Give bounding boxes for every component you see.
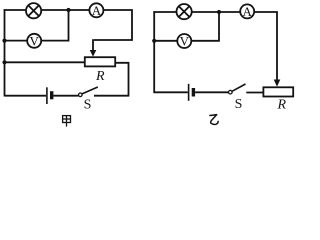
wire 甲 rheostat right lead down to bottom bbox=[115, 63, 128, 96]
switch S 甲 bbox=[79, 87, 98, 97]
svg-text:V: V bbox=[30, 33, 40, 48]
node 乙 voltmeter-left junction bbox=[152, 39, 156, 43]
wire 乙 ammeter to top-right corner, down, wiper arrow bbox=[255, 12, 281, 87]
svg-text:S: S bbox=[84, 97, 92, 112]
resistor R rheostat 甲 bbox=[85, 57, 115, 66]
voltmeter V2 乙 bbox=[177, 34, 191, 49]
svg-text:A: A bbox=[92, 3, 102, 18]
lamp L2 乙 bbox=[177, 4, 192, 19]
label 甲 bbox=[63, 116, 71, 127]
node 甲 top junction (voltmeter tap) bbox=[66, 8, 70, 12]
wire 乙 switch to rheostat left lead bbox=[246, 92, 263, 94]
wire 甲 wiper arrow bbox=[90, 39, 97, 56]
svg-text:S: S bbox=[235, 97, 243, 112]
resistor R rheostat 乙 bbox=[263, 87, 293, 96]
wire 甲 switch to bottom-right corner bbox=[94, 95, 129, 97]
wire 甲 bottom-left to battery bbox=[5, 95, 47, 97]
label S 甲 bbox=[84, 97, 92, 112]
node 甲 rheostat-left junction bbox=[2, 60, 6, 64]
voltmeter V1 甲 bbox=[27, 33, 41, 48]
wire 乙 lamp to ammeter bbox=[192, 11, 240, 13]
battery B1 甲 bbox=[47, 87, 52, 104]
svg-text:R: R bbox=[95, 69, 105, 84]
node 乙 top junction (voltmeter tap) bbox=[217, 10, 221, 14]
wire 甲 top-left segment bbox=[4, 9, 26, 11]
wire 甲 ammeter to top-right corner and down to wiper bbox=[94, 10, 132, 40]
switch S 乙 bbox=[229, 84, 246, 94]
wire 乙 voltmeter left lead bbox=[154, 40, 177, 42]
ammeter A2 乙 bbox=[240, 4, 254, 19]
node 甲 voltmeter-left junction bbox=[2, 39, 6, 43]
wire 甲 left vertical bbox=[4, 9, 6, 96]
lamp L1 甲 bbox=[26, 3, 41, 18]
svg-text:R: R bbox=[277, 98, 287, 113]
svg-text:V: V bbox=[180, 34, 190, 49]
label S 乙 bbox=[235, 97, 243, 112]
wire 乙 bottom-left to battery bbox=[154, 91, 188, 93]
wire 乙 left vertical bbox=[153, 11, 155, 93]
wire 甲 voltmeter right lead up to top junction bbox=[42, 10, 69, 41]
label R 甲 bbox=[95, 69, 105, 84]
wire 甲 rheostat left lead bbox=[5, 61, 85, 63]
wire 乙 voltmeter right lead up to top junction bbox=[192, 12, 219, 41]
wire 乙 top-left segment bbox=[153, 11, 176, 13]
battery B2 乙 bbox=[189, 84, 194, 101]
wire 甲 battery to switch bbox=[53, 95, 78, 97]
label 乙 bbox=[210, 115, 218, 125]
ammeter A1 甲 bbox=[89, 3, 103, 18]
svg-text:A: A bbox=[243, 4, 253, 19]
label R 乙 bbox=[277, 98, 287, 113]
wire 乙 battery to switch bbox=[195, 91, 228, 93]
wire 甲 voltmeter left lead bbox=[5, 40, 28, 42]
wire 甲 lamp to ammeter bbox=[41, 9, 89, 11]
